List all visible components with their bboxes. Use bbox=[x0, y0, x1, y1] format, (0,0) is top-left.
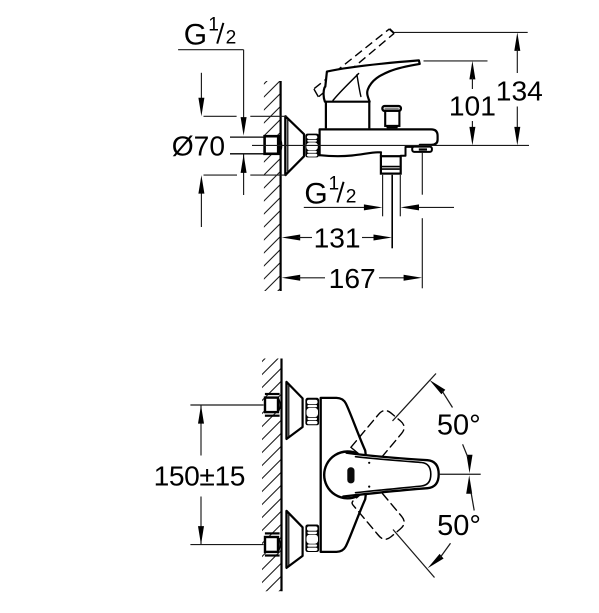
svg-text:2: 2 bbox=[226, 28, 237, 49]
svg-text:2: 2 bbox=[346, 187, 357, 208]
svg-text:134: 134 bbox=[496, 74, 543, 106]
svg-text:1: 1 bbox=[328, 173, 339, 194]
svg-text:50°: 50° bbox=[437, 409, 481, 441]
svg-text:131: 131 bbox=[314, 222, 361, 254]
svg-text:50°: 50° bbox=[437, 510, 481, 542]
svg-text:1: 1 bbox=[208, 15, 219, 36]
svg-text:101: 101 bbox=[449, 89, 496, 121]
svg-text:G: G bbox=[184, 19, 207, 52]
svg-text:150±15: 150±15 bbox=[154, 459, 245, 491]
svg-text:167: 167 bbox=[329, 262, 376, 294]
svg-text:Ø70: Ø70 bbox=[172, 129, 225, 161]
svg-text:G: G bbox=[304, 177, 327, 210]
